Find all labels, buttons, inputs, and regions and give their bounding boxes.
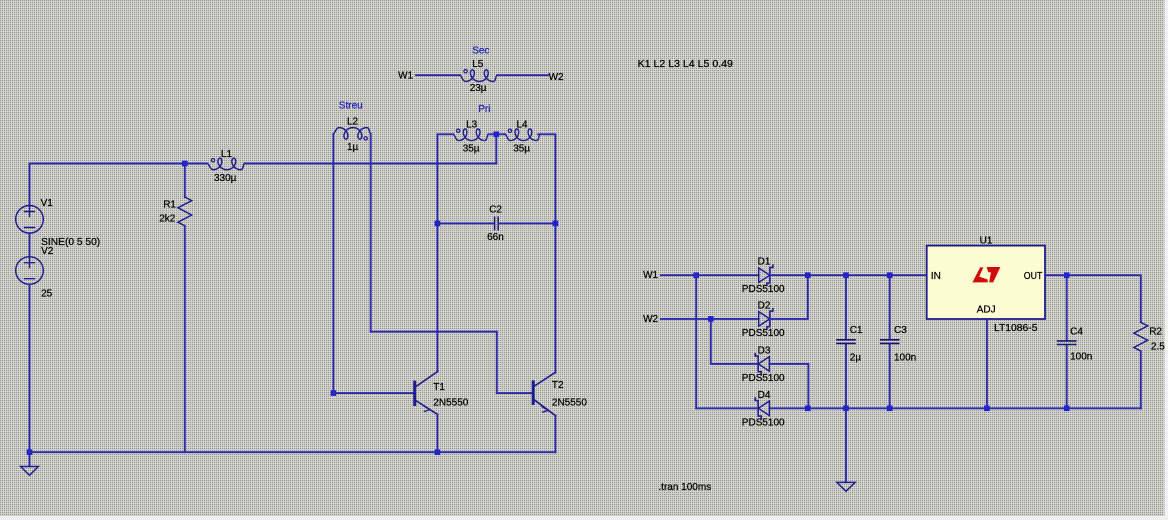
svg-text:LT1086-5: LT1086-5 [994,323,1038,334]
svg-text:C2: C2 [489,205,502,216]
wire main horizontal L1 to Pri center stub [245,163,497,165]
svg-text:PDS5100: PDS5100 [742,284,785,295]
wire between V1 and V2 [29,233,31,257]
transistor T2 [533,372,555,415]
svg-text:PDS5100: PDS5100 [742,328,785,339]
phase dot L3 [457,129,460,132]
junction L2 leg / T1 base wire [331,390,337,396]
svg-text:66n: 66n [487,232,504,243]
junction D3/D4 on rail [805,406,811,412]
junction T1 emitter on rail [435,449,441,455]
junction C3 top [887,272,893,278]
wire left source column vertical top [29,164,31,206]
svg-text:K1 L2 L3 L4 L5 0.49: K1 L2 L3 L4 L5 0.49 [638,59,734,70]
wire down to T2 base row [496,332,498,393]
junction D1/D2 output [805,272,811,278]
svg-text:PDS5100: PDS5100 [742,417,785,428]
inductor L4 [505,129,540,141]
diode D3 (cathode left) [755,354,769,374]
wire bottom rail [30,451,556,453]
wire L5 to W2 [497,74,548,76]
junction C1 bottom [843,406,849,412]
svg-text:23µ: 23µ [470,83,487,94]
junction L3/L4 midpoint [494,132,500,138]
svg-text:L3: L3 [466,119,478,130]
svg-text:U1: U1 [980,235,993,246]
svg-text:35µ: 35µ [513,144,530,155]
wire V2 down to ground rail [29,284,31,452]
capacitor C2 [495,217,499,229]
wire D1 cathode to regulator input [770,274,927,276]
wire W1 to L5 [416,74,460,76]
svg-text:.tran 100ms: .tran 100ms [658,482,711,493]
wire bottom minus rail [769,407,1140,409]
junction C2 left [435,221,441,227]
wire W1 to D1 anode [661,274,759,276]
wire Pri right corner [538,134,555,372]
capacitor C4 plates [1058,341,1076,345]
transistor T1 [415,372,438,415]
phase dot L4 [508,129,511,132]
regulator U1 body [927,246,1045,319]
capacitor C1 leads [845,275,847,339]
junction main wire / R1 [182,161,188,167]
junction W2 column [708,316,714,322]
svg-text:C1: C1 [850,325,863,336]
wire T1 emitter to rail [436,414,438,452]
svg-text:L2: L2 [347,117,359,128]
svg-text:C3: C3 [894,325,907,336]
wire OUT to R2 corner [1045,275,1141,322]
wire stub from main wire up to L3/L4 midpoint [495,134,497,163]
junction C1 top [843,272,849,278]
wire L2 left leg down to T1 base node [332,134,334,393]
wire C2 right lead [499,222,555,224]
svg-text:2µ: 2µ [850,353,862,364]
svg-text:W2: W2 [643,314,658,325]
svg-text:D2: D2 [758,300,771,311]
wire L3 to center junction [488,133,505,135]
svg-text:T1: T1 [433,382,445,393]
wire R1 bottom lead to rail [184,226,186,452]
svg-text:Pri: Pri [478,104,490,115]
wire C2 left lead [437,222,494,224]
svg-text:PDS5100: PDS5100 [742,373,785,384]
wire horizontal to T2 branch [371,331,497,333]
inductor L5 [460,70,497,82]
junction W1 column [693,272,699,278]
wire ADJ pin down to rail [986,319,988,408]
svg-text:OUT: OUT [1024,271,1043,282]
junction at source/rail corner [27,449,33,455]
wire ground stub right [845,408,847,482]
wire T2 emitter to rail [554,416,556,453]
LT logo [972,267,1000,282]
wire D2 cathode up to plus rail [770,275,808,319]
diode D1 [759,265,773,285]
svg-text:V1: V1 [41,198,54,209]
wire ground stub bottom-left [29,452,31,466]
svg-text:35µ: 35µ [463,144,480,155]
wire R1 top lead [184,164,186,198]
svg-text:1µ: 1µ [347,142,359,153]
wire W2 to D2 anode [661,318,759,320]
voltage source V2 [16,257,44,285]
svg-text:T2: T2 [552,380,564,391]
svg-text:Streu: Streu [339,101,363,112]
svg-text:2N5550: 2N5550 [552,398,587,409]
wire T1 base [333,392,413,394]
svg-text:V2: V2 [41,246,54,257]
resistor R1 [178,197,192,226]
phase dot L2 [364,137,367,140]
svg-text:R2: R2 [1149,326,1162,337]
svg-text:Sec: Sec [472,45,489,56]
capacitor C4 leads [1066,275,1068,340]
junction C3 bottom [887,406,893,412]
capacitor C3 leads [889,275,891,339]
diode D4 (cathode left) [755,398,769,418]
junction C4 top [1064,272,1070,278]
ground symbol right [837,482,855,491]
svg-text:C4: C4 [1070,326,1083,337]
capacitor C3 plates [881,340,899,344]
svg-text:100n: 100n [894,353,916,364]
diode D2 [759,309,773,329]
svg-text:25: 25 [41,288,53,299]
svg-text:D4: D4 [758,390,771,401]
inductor L2 coil [333,128,370,140]
svg-text:D3: D3 [758,345,771,356]
phase dot L5 [464,70,467,73]
wire Pri left corner [437,134,453,371]
svg-text:ADJ: ADJ [977,305,996,316]
ground symbol left [21,467,39,476]
svg-text:2N5550: 2N5550 [433,397,468,408]
svg-text:L1: L1 [221,149,233,160]
svg-text:R1: R1 [163,200,176,211]
inductor L1 [208,158,245,170]
svg-text:W1: W1 [643,270,658,281]
junction ADJ on rail [984,406,990,412]
svg-text:L5: L5 [472,59,484,70]
svg-text:330µ: 330µ [214,173,237,184]
svg-text:L4: L4 [517,119,529,130]
wire to T2 base [497,392,532,394]
wire W2 column down to D3 row [711,319,758,364]
wire W1 column down to D4 row [695,275,697,408]
svg-text:2k2: 2k2 [159,213,176,224]
svg-text:W2: W2 [549,72,564,83]
wire L2 right leg down [370,134,372,332]
junction C4 bottom [1064,406,1070,412]
wire D3 anode down to minus rail [769,364,808,408]
resistor R2 [1134,322,1148,351]
svg-text:IN: IN [931,271,941,282]
svg-text:2.5: 2.5 [1151,341,1165,352]
phase dot L1 [211,159,214,162]
wire D4 row left [696,407,758,409]
voltage source V1 [16,206,44,234]
svg-text:100n: 100n [1070,352,1092,363]
svg-text:D1: D1 [758,257,771,268]
wire R2 bottom lead [1140,351,1142,408]
inductor L3 [453,129,488,141]
junction C2 right [553,221,559,227]
svg-text:W1: W1 [398,71,413,82]
capacitor C1 plates [837,340,855,344]
wire top-left horizontal from source column to L1 [30,163,207,165]
